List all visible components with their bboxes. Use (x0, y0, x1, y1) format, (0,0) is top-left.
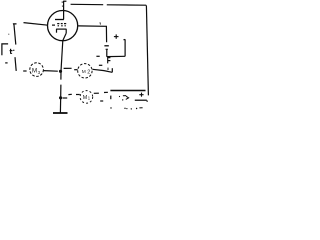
node J2 (bottom junction) (59, 96, 62, 99)
wire: J2 to M1 (broken) (63, 94, 80, 98)
label plus (screen battery) (114, 34, 119, 38)
battery B2 (screen supply) (104, 46, 108, 57)
tube V1 cathode (56, 29, 66, 33)
voltmeter M3 (30, 63, 44, 77)
svg-text:3: 3 (38, 70, 41, 75)
dashed row under battery B1 (110, 107, 137, 109)
tube V1 grid G2 (dashed) (58, 25, 66, 27)
wire: junction to M2 (broken) (64, 68, 78, 69)
label B (arrow mark) (119, 96, 129, 101)
voltmeter M2 (78, 64, 92, 78)
wire: battery bottom to terminal (107, 55, 125, 57)
node speck (8, 34, 9, 35)
wire: cathode down to J2 (59, 71, 62, 113)
tube V1 grid G1 (dashed) (57, 23, 66, 25)
node tick near corner (99, 22, 101, 24)
node J1 (cathode junction) (59, 70, 62, 73)
ground bar (53, 112, 68, 114)
battery C1 (grid bias, glyph) (10, 49, 15, 54)
tube V1 envelope (48, 11, 78, 41)
wire: grid horizontal to tube (24, 23, 48, 26)
battery B1 short plate (135, 99, 147, 101)
tube V1 grid stub wire (left) (52, 24, 55, 26)
label minus (screen battery) (96, 55, 99, 57)
wire: M3 to cathode junction (44, 70, 58, 73)
wire: screen grid to right corner (78, 26, 107, 42)
wire: cathode lead down (61, 33, 66, 71)
tube V1 plate bar (55, 19, 64, 21)
svg-text:M: M (82, 69, 86, 75)
tube V1 plate lead (62, 1, 67, 20)
svg-text:M: M (32, 67, 37, 74)
battery B1 (plate supply) long plate (110, 90, 145, 92)
wire: grid corner top-left (14, 24, 17, 45)
wire: top plate run (71, 3, 147, 6)
wire: left vertical lower (15, 57, 16, 71)
svg-text:1: 1 (88, 96, 91, 101)
label plus (plate battery) (139, 93, 143, 97)
wire: right vertical (146, 5, 148, 95)
battery B1 negative tick (110, 96, 112, 100)
wire: minus dash left of M3 (23, 70, 26, 72)
terminal post (124, 39, 126, 56)
wire: M2 right to riser (93, 68, 113, 72)
bracket label Ec (2, 44, 8, 63)
milliammeter M1 (80, 91, 93, 104)
label minus (M2 branch) (99, 64, 102, 66)
svg-text:2: 2 (87, 69, 90, 75)
wire: M1 to battery B1 (broken) (94, 92, 108, 101)
battery B3 (link plates near M2 riser) (108, 57, 111, 70)
